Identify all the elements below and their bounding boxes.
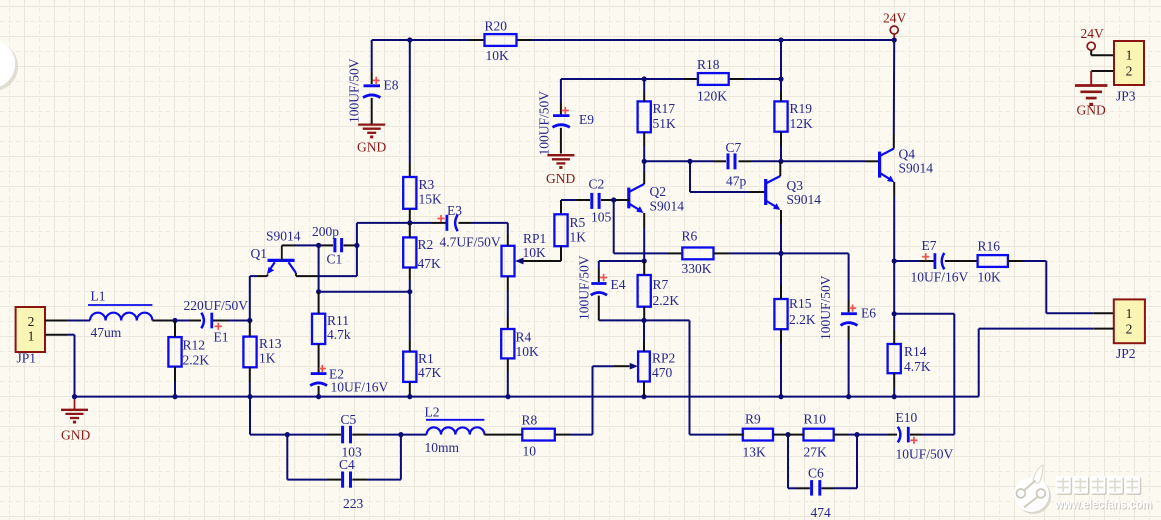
wire E7 feed xyxy=(894,260,933,262)
wire E1 row xyxy=(175,320,250,322)
svg-text:JP1: JP1 xyxy=(17,351,37,366)
svg-text:200p: 200p xyxy=(312,224,339,239)
svg-text:15K: 15K xyxy=(419,192,443,207)
wire Q1 base row xyxy=(282,244,319,246)
svg-text:www.elecfans.com: www.elecfans.com xyxy=(1054,498,1152,512)
potentiometer RP2 xyxy=(630,351,676,382)
ground GND (E8) xyxy=(357,125,386,155)
node E4 top junction xyxy=(642,258,647,263)
svg-text:1K: 1K xyxy=(570,230,587,245)
svg-text:47K: 47K xyxy=(418,365,442,380)
svg-text:4.7UF/50V: 4.7UF/50V xyxy=(440,235,501,250)
ground GND (JP3) xyxy=(1075,86,1107,118)
wire Q4 collector xyxy=(893,40,895,149)
wire E4 top xyxy=(599,261,644,282)
svg-text:E1: E1 xyxy=(214,330,229,345)
node Q3 emitter junction xyxy=(778,251,783,256)
svg-text:L2: L2 xyxy=(425,405,440,420)
svg-text:R13: R13 xyxy=(259,336,282,351)
svg-text:47K: 47K xyxy=(418,256,442,271)
wire R4 bottom pin xyxy=(507,358,509,396)
transistor Q1 xyxy=(251,229,301,277)
wire Q4 emitter xyxy=(893,182,895,261)
svg-text:E4: E4 xyxy=(611,277,626,292)
wire JP2 pin2 xyxy=(979,329,1114,397)
svg-text:100UF/50V: 100UF/50V xyxy=(347,58,362,123)
svg-text:R10: R10 xyxy=(804,412,827,427)
svg-text:223: 223 xyxy=(343,496,364,511)
wire E10 left xyxy=(857,434,897,436)
svg-text:R1: R1 xyxy=(418,351,434,366)
svg-text:GND: GND xyxy=(357,140,386,155)
potentiometer RP1 xyxy=(502,231,547,276)
svg-text:100UF/50V: 100UF/50V xyxy=(537,91,552,156)
wire RP1 bottom pin xyxy=(507,276,509,329)
wire 24V top rail xyxy=(372,39,895,41)
svg-text:10K: 10K xyxy=(516,344,540,359)
svg-text:C6: C6 xyxy=(808,466,824,481)
resistor R7 xyxy=(638,275,680,308)
capacitor C6 xyxy=(808,466,831,520)
wire Q4col xyxy=(893,261,895,314)
svg-text:330K: 330K xyxy=(682,261,712,276)
wire RP1 top pin xyxy=(507,223,509,246)
node R14 top junction xyxy=(892,311,897,316)
svg-text:E10: E10 xyxy=(896,410,918,425)
wire JP1 pin1 xyxy=(45,335,75,397)
capacitor E8 xyxy=(347,58,399,124)
wire R19 pins xyxy=(780,79,782,161)
svg-text:51K: 51K xyxy=(653,116,677,131)
wire R6-right xyxy=(714,252,781,254)
wire C6 loop xyxy=(788,435,857,489)
wire C7 rail xyxy=(644,160,879,162)
wire Q1 emitter out xyxy=(250,276,268,320)
node C1 junctions xyxy=(316,243,360,248)
wire C4 row xyxy=(287,435,401,480)
capacitor E6 xyxy=(818,275,876,396)
svg-text:120K: 120K xyxy=(697,89,727,104)
svg-text:S9014: S9014 xyxy=(787,192,822,207)
resistor R13 xyxy=(243,336,281,367)
wire JP1 pin2 xyxy=(45,320,90,322)
wire RP2 pins xyxy=(643,320,645,396)
svg-text:E7: E7 xyxy=(922,238,937,253)
wire E4 bottom xyxy=(599,319,644,321)
wire y291 link xyxy=(319,291,410,293)
svg-text:R11: R11 xyxy=(327,313,349,328)
capacitor E7 xyxy=(911,238,969,285)
svg-text:S9014: S9014 xyxy=(266,229,301,244)
wire R5-bottom to RP1 wiper xyxy=(523,246,561,261)
node C5 junctions xyxy=(285,432,404,437)
wire 24V-to-R19 xyxy=(780,40,782,79)
capacitor E10 xyxy=(896,410,954,462)
capacitor C4 xyxy=(339,457,364,511)
resistor R2 xyxy=(403,237,441,271)
wire R16-to-JP2pin1 xyxy=(1008,261,1114,313)
wire Q2base-to-R6 xyxy=(614,200,683,253)
capacitor E2 xyxy=(310,365,388,397)
wire Q3 emitter xyxy=(780,210,782,253)
svg-text:R19: R19 xyxy=(790,101,813,116)
resistor R11 xyxy=(312,313,351,344)
capacitor C5 xyxy=(341,412,363,460)
inductor L1 xyxy=(88,289,152,341)
resistor R19 xyxy=(774,101,813,132)
svg-text:1: 1 xyxy=(1126,48,1133,63)
svg-text:R7: R7 xyxy=(653,277,669,292)
svg-text:GND: GND xyxy=(61,428,90,443)
svg-text:R16: R16 xyxy=(978,239,1001,254)
svg-text:474: 474 xyxy=(811,505,832,520)
resistor R9 xyxy=(743,412,774,460)
svg-text:L1: L1 xyxy=(91,289,106,304)
svg-text:R9: R9 xyxy=(745,412,761,427)
svg-text:27K: 27K xyxy=(804,445,828,460)
wire E3 row xyxy=(357,222,508,224)
wire C2 pins xyxy=(576,199,614,201)
transistor Q2 xyxy=(629,184,684,214)
svg-text:100UF/50V: 100UF/50V xyxy=(818,275,833,340)
wire E3row-to-C1right xyxy=(356,223,358,246)
svg-text:10UF/16V: 10UF/16V xyxy=(911,270,969,285)
svg-text:C2: C2 xyxy=(589,177,605,192)
wire C1 pins xyxy=(319,244,357,246)
svg-text:R5: R5 xyxy=(570,215,586,230)
wire E8 feed xyxy=(371,40,373,84)
svg-text:2: 2 xyxy=(28,314,35,329)
wire E9/R18 rail xyxy=(561,78,781,80)
capacitor E1 xyxy=(184,298,249,345)
svg-text:10UF/50V: 10UF/50V xyxy=(896,447,954,462)
resistor R20 xyxy=(485,19,517,64)
node rail161 junctions xyxy=(642,159,784,164)
wire R8-to-RP2 wiper xyxy=(593,366,630,434)
svg-text:10K: 10K xyxy=(486,48,510,63)
svg-text:100UF/50V: 100UF/50V xyxy=(577,255,592,320)
svg-text:2: 2 xyxy=(1126,63,1133,78)
wire R13 pins xyxy=(249,321,251,397)
svg-text:RP1: RP1 xyxy=(523,231,546,246)
resistor R18 xyxy=(697,57,729,104)
wire R3 bottom pin xyxy=(409,209,411,223)
svg-text:C4: C4 xyxy=(339,457,355,472)
svg-text:R18: R18 xyxy=(697,57,720,72)
svg-text:47um: 47um xyxy=(91,325,122,340)
svg-text:R12: R12 xyxy=(183,338,206,353)
wire R1 pins xyxy=(409,292,411,397)
wire R12 pins xyxy=(174,321,176,397)
node E1/R13 junction xyxy=(247,318,252,323)
resistor R6 xyxy=(682,229,714,277)
resistor R1 xyxy=(403,351,441,382)
svg-text:S9014: S9014 xyxy=(650,199,685,214)
transistor Q3 xyxy=(766,176,822,210)
node 24V rail junction xyxy=(407,37,897,42)
wire 24V-to-R3 xyxy=(409,40,411,177)
resistor R16 xyxy=(978,239,1008,285)
svg-text:C7: C7 xyxy=(726,140,742,155)
svg-text:Q4: Q4 xyxy=(899,147,916,162)
resistor R5 xyxy=(554,214,586,246)
svg-text:E8: E8 xyxy=(384,78,399,93)
svg-text:R17: R17 xyxy=(653,101,676,116)
wire Q2 base pin xyxy=(614,199,629,201)
wire R11 pins xyxy=(318,292,320,373)
svg-text:2.2K: 2.2K xyxy=(653,293,680,308)
svg-text:C1: C1 xyxy=(327,252,343,267)
wire Q3 base link xyxy=(690,161,766,192)
wire Q2 collector xyxy=(643,161,645,184)
wire L2 pins xyxy=(401,434,507,436)
wire C1right-to-Q1 xyxy=(296,245,357,276)
svg-text:E6: E6 xyxy=(861,306,876,321)
svg-text:Q1: Q1 xyxy=(251,246,268,261)
svg-text:1: 1 xyxy=(1126,306,1133,321)
capacitor E3 xyxy=(437,203,500,250)
watermark logo elecfans xyxy=(1014,465,1051,514)
resistor R4 xyxy=(501,329,539,359)
wire R7 pins xyxy=(643,261,645,320)
svg-text:220UF/50V: 220UF/50V xyxy=(184,298,249,313)
node rail79 junctions xyxy=(642,76,784,81)
wire JP3 pin2 xyxy=(1091,71,1114,86)
svg-text:R20: R20 xyxy=(485,19,508,34)
capacitor E9 xyxy=(537,91,595,156)
svg-text:GND: GND xyxy=(1077,103,1106,118)
svg-text:10: 10 xyxy=(523,444,537,459)
resistor R15 xyxy=(774,296,815,329)
svg-text:E9: E9 xyxy=(579,112,594,127)
svg-text:4.7K: 4.7K xyxy=(904,359,931,374)
watermark title text xyxy=(1056,476,1142,495)
svg-text:Q2: Q2 xyxy=(650,184,667,199)
svg-text:2.2K: 2.2K xyxy=(789,312,816,327)
node E3/R3/R2 junction xyxy=(407,220,412,225)
resistor R3 xyxy=(403,177,442,209)
svg-text:2.2K: 2.2K xyxy=(183,353,210,368)
node R9/R10 junction xyxy=(785,432,790,437)
capacitor C7 xyxy=(726,140,747,189)
svg-text:1: 1 xyxy=(28,329,35,344)
wire Q2 emitter xyxy=(643,213,645,261)
power port 24V (JP3) xyxy=(1081,26,1105,55)
svg-text:13K: 13K xyxy=(743,445,767,460)
wire R10 pins xyxy=(788,434,857,436)
inductor L2 xyxy=(425,405,485,456)
svg-text:C5: C5 xyxy=(341,412,357,427)
svg-text:12K: 12K xyxy=(790,116,814,131)
capacitor C1 xyxy=(312,224,342,267)
wire R2 pins xyxy=(409,223,411,292)
svg-text:JP2: JP2 xyxy=(1116,346,1136,361)
wire E6 top xyxy=(781,253,849,312)
resistor R12 xyxy=(168,337,209,367)
svg-text:470: 470 xyxy=(652,365,673,380)
wire Q3 collector xyxy=(779,161,781,176)
wire E7-R16 xyxy=(945,260,978,262)
svg-text:24V: 24V xyxy=(883,11,907,26)
wire R8 pins xyxy=(507,434,593,436)
connector JP3 xyxy=(1114,41,1144,104)
svg-text:47p: 47p xyxy=(726,174,747,189)
node R7 bottom junction xyxy=(641,318,646,323)
resistor R8 xyxy=(522,413,555,459)
node y291 junctions xyxy=(316,289,412,294)
svg-text:R2: R2 xyxy=(418,237,434,252)
node E1 node xyxy=(172,318,177,323)
wire E10 riser xyxy=(894,314,954,435)
svg-text:R8: R8 xyxy=(522,413,538,428)
wire C1-left drop xyxy=(318,245,320,291)
wire ground rail xyxy=(75,396,979,398)
power port 24V xyxy=(883,11,907,41)
wire L1-out xyxy=(152,320,175,322)
svg-text:2: 2 xyxy=(1126,321,1133,336)
svg-text:R6: R6 xyxy=(682,229,698,244)
wire R17 pins xyxy=(643,79,645,161)
svg-text:10UF/16V: 10UF/16V xyxy=(331,380,389,395)
node Q4 emitter junction xyxy=(892,258,897,263)
svg-text:10mm: 10mm xyxy=(425,440,460,455)
wire R5-top xyxy=(561,200,576,214)
capacitor C2 xyxy=(589,177,612,225)
wire R15 pins xyxy=(780,253,782,396)
svg-text:RP2: RP2 xyxy=(652,351,675,366)
svg-text:R15: R15 xyxy=(789,296,812,311)
watermark url text xyxy=(1054,498,1153,513)
wire E9 feed xyxy=(560,79,562,115)
svg-text:Q3: Q3 xyxy=(787,178,804,193)
ground GND (E9) xyxy=(546,155,575,186)
decorative circle left edge xyxy=(0,40,18,91)
svg-text:S9014: S9014 xyxy=(899,161,934,176)
resistor R14 xyxy=(888,344,931,374)
svg-text:105: 105 xyxy=(591,210,612,225)
wire C5 row xyxy=(250,397,401,435)
wire R7bot-to-R9col xyxy=(644,320,728,434)
connector JP2 xyxy=(1114,299,1145,361)
capacitor E4 xyxy=(577,255,626,320)
svg-text:1K: 1K xyxy=(259,351,276,366)
wire R14 pins xyxy=(893,314,895,397)
wire R9 pins xyxy=(728,434,788,436)
connector JP1 xyxy=(16,307,45,366)
svg-text:10K: 10K xyxy=(523,245,547,260)
svg-text:R3: R3 xyxy=(419,177,435,192)
node R10/E10 junction xyxy=(854,432,859,437)
svg-text:4.7k: 4.7k xyxy=(327,327,351,342)
wire JP3 pin1 xyxy=(1091,54,1114,56)
transistor Q4 xyxy=(880,147,934,183)
svg-text:E3: E3 xyxy=(447,203,462,218)
resistor R17 xyxy=(638,101,676,132)
svg-text:JP3: JP3 xyxy=(1116,89,1136,104)
svg-text:24V: 24V xyxy=(1081,26,1105,41)
svg-text:R4: R4 xyxy=(516,330,532,345)
node ground rail junctions xyxy=(72,394,897,399)
ground GND (JP1) xyxy=(61,397,90,443)
resistor R10 xyxy=(804,412,834,460)
svg-text:GND: GND xyxy=(546,171,575,186)
node Q2 base node xyxy=(611,197,616,202)
svg-text:R14: R14 xyxy=(904,344,927,359)
svg-text:10K: 10K xyxy=(978,270,1002,285)
